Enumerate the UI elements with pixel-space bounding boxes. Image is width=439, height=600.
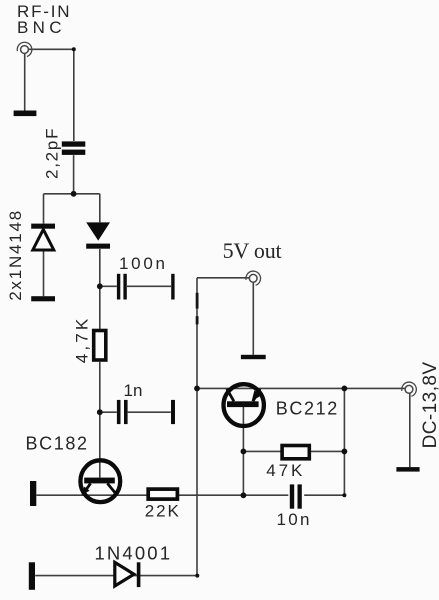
svg-text:2x1N4148: 2x1N4148 <box>6 211 25 301</box>
svg-text:5V out: 5V out <box>223 238 282 263</box>
svg-text:BC212: BC212 <box>276 398 338 418</box>
svg-text:1n: 1n <box>124 381 143 400</box>
svg-text:2,2pF: 2,2pF <box>43 129 62 180</box>
svg-text:47K: 47K <box>266 461 303 480</box>
svg-text:4,7K: 4,7K <box>72 318 91 363</box>
svg-text:DC-13,8V: DC-13,8V <box>420 362 439 449</box>
svg-text:22K: 22K <box>145 502 180 521</box>
svg-text:BNC: BNC <box>17 18 62 37</box>
svg-text:BC182: BC182 <box>26 433 88 453</box>
svg-text:10n: 10n <box>277 510 310 529</box>
